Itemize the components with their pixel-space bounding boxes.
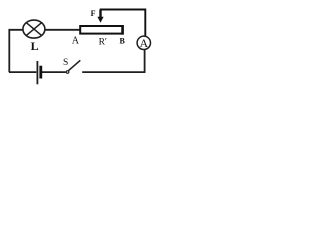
svg-text:S: S [63, 58, 68, 68]
svg-text:F: F [91, 9, 96, 18]
svg-text:A: A [140, 37, 149, 50]
svg-text:B: B [120, 37, 126, 46]
svg-text:A: A [72, 36, 80, 47]
svg-text:R′: R′ [99, 38, 107, 48]
svg-text:L: L [31, 39, 39, 53]
